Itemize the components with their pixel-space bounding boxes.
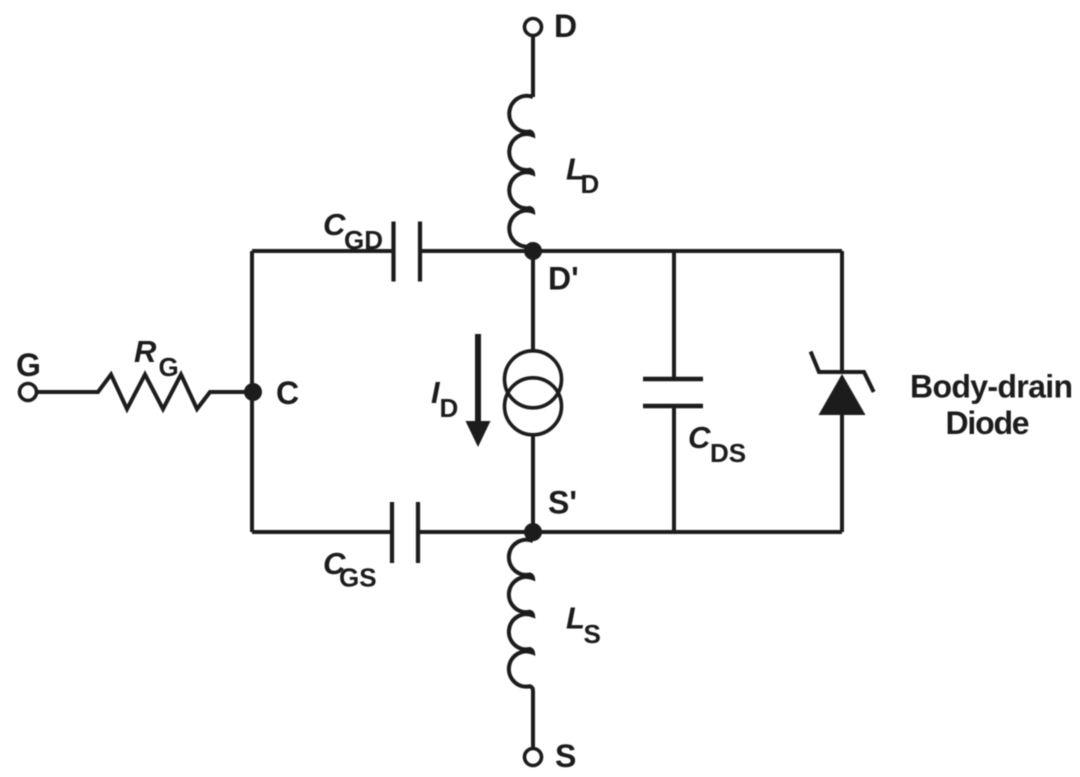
svg-text:R: R <box>134 334 157 369</box>
svg-text:Body-drain: Body-drain <box>910 369 1072 405</box>
svg-text:D': D' <box>548 261 579 297</box>
svg-text:S: S <box>555 738 576 774</box>
svg-text:D: D <box>440 393 459 423</box>
svg-text:DS: DS <box>710 438 746 468</box>
svg-text:S: S <box>584 619 601 649</box>
svg-text:C: C <box>688 420 711 455</box>
svg-text:G: G <box>16 347 41 383</box>
svg-text:L: L <box>566 601 585 636</box>
svg-text:G: G <box>159 352 179 382</box>
svg-text:GD: GD <box>344 225 383 255</box>
svg-text:Diode: Diode <box>946 405 1029 441</box>
svg-text:D: D <box>581 169 600 199</box>
svg-text:D: D <box>554 8 577 44</box>
svg-text:C: C <box>323 207 346 242</box>
svg-text:C: C <box>276 375 299 411</box>
svg-text:GS: GS <box>339 563 377 593</box>
svg-text:S': S' <box>548 485 577 521</box>
